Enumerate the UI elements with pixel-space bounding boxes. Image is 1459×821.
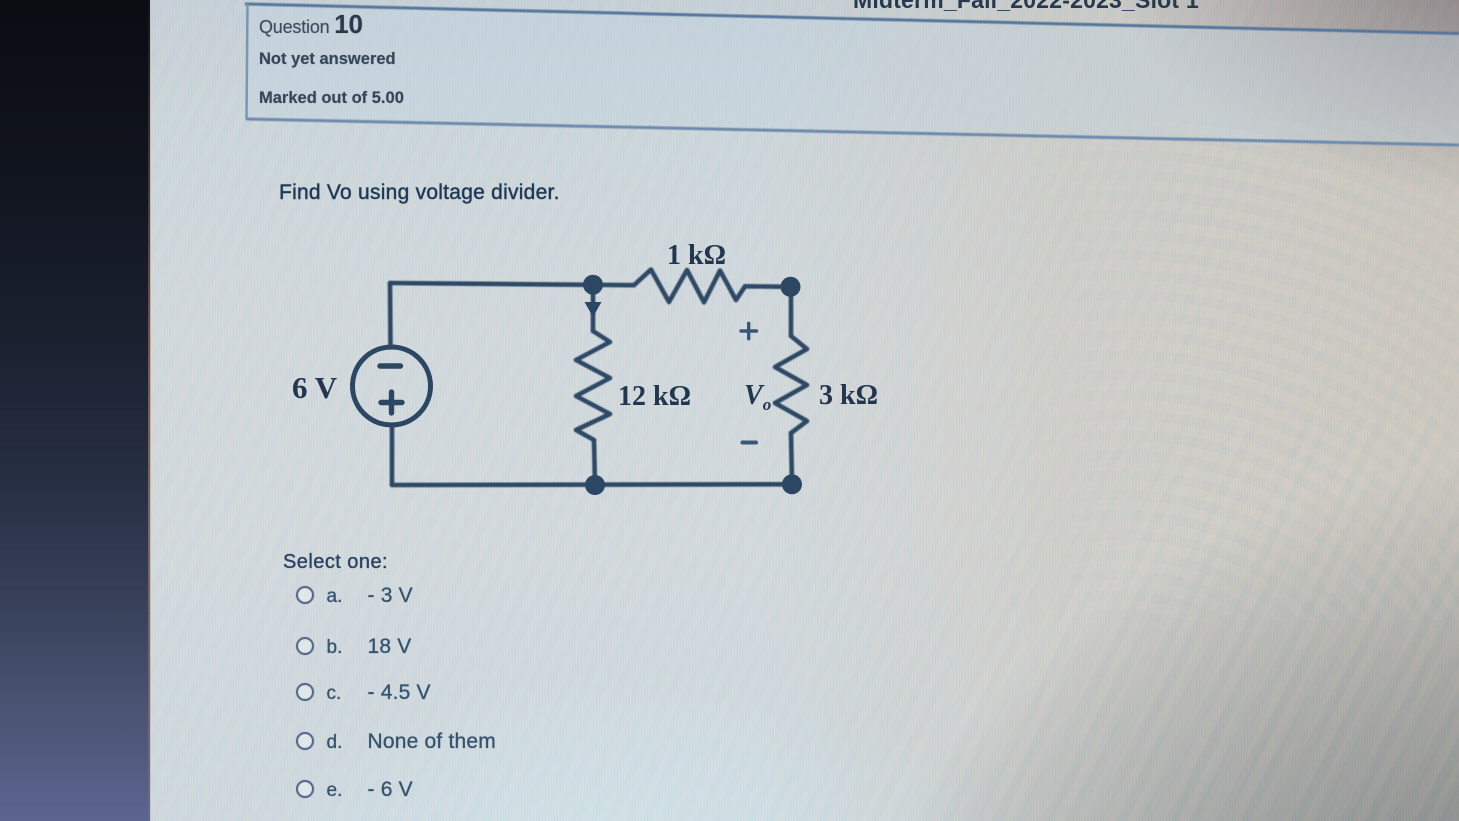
option c text [327, 683, 342, 704]
node A dot [583, 275, 603, 295]
question box left border [247, 4, 248, 119]
dark left monitor edge [0, 0, 150, 821]
plus mark of Vo [741, 323, 757, 338]
source minus sign [380, 363, 401, 368]
option e radio [296, 780, 314, 798]
top-right header text (cut off at top) [853, 0, 1199, 12]
Question 10 heading [259, 11, 363, 40]
wire right branch lower [791, 433, 792, 484]
option d radio [296, 732, 314, 750]
option d text [327, 732, 343, 753]
wire left branch upper (source top) [388, 283, 393, 347]
question box top border [245, 4, 1459, 34]
option e text [327, 780, 343, 801]
wire bottom [392, 482, 792, 487]
Select one [283, 552, 388, 572]
warm screen edge line [148, 0, 151, 821]
wire right branch upper [789, 287, 794, 336]
label 3 kOhm [819, 380, 878, 412]
option a radio [296, 586, 314, 604]
label 12 kOhm [618, 381, 691, 413]
label Vo [744, 380, 771, 415]
diagonal moire streaks bottom-right [780, 420, 1459, 821]
prompt [279, 182, 560, 203]
node D dot (bottom right) [782, 474, 802, 494]
wire from R1 to node B [745, 284, 791, 289]
source plus sign [381, 392, 402, 413]
node C dot (bottom middle) [585, 475, 605, 495]
wire 12k top stub with arrow tail [591, 285, 596, 331]
question box interior [245, 4, 1459, 145]
option c radio [296, 683, 314, 701]
voltage source V1 circle [353, 347, 431, 425]
option b radio [296, 637, 314, 655]
option b text [327, 637, 343, 658]
wire 12k bottom stub [594, 440, 595, 485]
resistor R2 12k zigzag [576, 331, 610, 440]
Not yet answered [259, 50, 396, 69]
wire top from source to node A and resistor R1 lead [390, 283, 634, 285]
label 1 kOhm [667, 240, 726, 272]
curved moire arcs right-middle [1000, 120, 1459, 620]
current arrow on 12k branch [585, 302, 602, 317]
resistor R1 1k zigzag [634, 270, 745, 303]
wire left branch lower (source bottom) [390, 425, 395, 485]
question box bottom border [246, 119, 1459, 145]
Marked out of 5.00 [259, 89, 404, 108]
resistor R3 3k zigzag [775, 336, 807, 433]
label 6 V [292, 370, 337, 406]
option a text [327, 586, 343, 607]
minus mark of Vo [743, 441, 757, 445]
node B dot [781, 277, 801, 297]
